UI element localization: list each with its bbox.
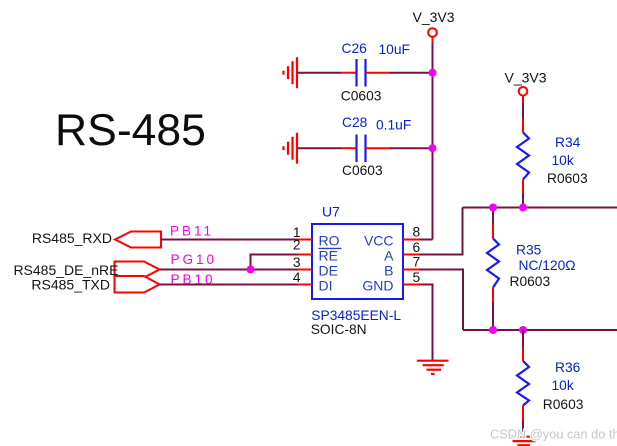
- wire pin 6 to A line: [419, 208, 463, 255]
- svg-text:PG10: PG10: [171, 252, 218, 267]
- wire junction up to pin 2: [251, 255, 299, 270]
- wire R34 to A line: [522, 194, 524, 208]
- wire port DE_nRE to pin 3: [160, 269, 299, 271]
- svg-text:R0603: R0603: [510, 274, 551, 289]
- svg-text:10k: 10k: [552, 153, 574, 168]
- svg-text:NC/120Ω: NC/120Ω: [519, 258, 576, 273]
- svg-text:0.1uF: 0.1uF: [376, 118, 411, 133]
- pin 4 stub: [297, 284, 312, 286]
- capacitor C28: [341, 115, 411, 178]
- svg-text:7: 7: [413, 255, 421, 270]
- wire ground to C28: [298, 147, 341, 149]
- svg-text:SOIC-8N: SOIC-8N: [311, 322, 367, 337]
- pin 7 stub: [403, 269, 419, 271]
- svg-text:PB11: PB11: [170, 224, 214, 239]
- node junction RE/DE tie: [247, 266, 255, 274]
- node junction B/R35: [489, 326, 497, 334]
- capacitor C26: [341, 41, 410, 104]
- svg-text:C0603: C0603: [342, 163, 383, 178]
- node junction C26/rail: [429, 69, 437, 77]
- svg-text:DI: DI: [319, 278, 333, 294]
- node junction A/R35: [489, 204, 497, 212]
- svg-text:10uF: 10uF: [379, 42, 410, 57]
- svg-text:RO: RO: [319, 233, 340, 249]
- pin 6 stub: [403, 254, 419, 256]
- wire C28 to rail: [390, 147, 433, 149]
- ground (earth) for C26: [284, 57, 298, 88]
- wire V_3V3 vertical rail: [432, 44, 434, 240]
- pin 8 stub: [403, 239, 419, 241]
- svg-text:6: 6: [413, 240, 421, 255]
- wire ground to C26: [298, 72, 341, 74]
- svg-text:VCC: VCC: [364, 233, 394, 249]
- svg-text:4: 4: [293, 270, 301, 285]
- wire B line: [463, 329, 617, 331]
- svg-text:R0603: R0603: [543, 397, 584, 412]
- svg-text:RS485_RXD: RS485_RXD: [32, 230, 112, 246]
- ground (earth) pin 5: [417, 361, 449, 374]
- resistor R34 10k: [517, 119, 588, 195]
- resistor R36 10k: [517, 330, 584, 435]
- port RS485_TXD: [31, 276, 159, 293]
- wire pin 7 to B line: [419, 270, 463, 331]
- node junction A/R34: [519, 204, 527, 212]
- svg-text:V_3V3: V_3V3: [505, 70, 547, 86]
- node junction C28/rail: [429, 144, 437, 152]
- svg-text:8: 8: [413, 225, 421, 240]
- svg-text:DE: DE: [319, 263, 338, 279]
- svg-text:GND: GND: [362, 278, 393, 294]
- wire pin 8 to rail: [419, 239, 433, 241]
- pin 3 stub: [297, 269, 312, 271]
- svg-text:10k: 10k: [552, 378, 574, 393]
- power V_3V3 top: [413, 9, 455, 44]
- svg-text:B: B: [384, 263, 393, 279]
- port RS485_RXD: [32, 230, 161, 248]
- svg-text:C28: C28: [342, 115, 368, 130]
- IC U7 SP3485EEN-L: [311, 204, 403, 338]
- svg-text:A: A: [384, 248, 394, 264]
- resistor R35 NC/120R: [487, 208, 576, 331]
- svg-text:SP3485EEN-L: SP3485EEN-L: [311, 308, 401, 323]
- svg-text:R35: R35: [516, 243, 542, 258]
- wire V_3V3 to R34: [522, 103, 524, 119]
- svg-text:V_3V3: V_3V3: [413, 9, 455, 25]
- svg-text:CSDN @you can do this: CSDN @you can do this: [490, 427, 617, 442]
- svg-text:RS485_TXD: RS485_TXD: [31, 276, 110, 292]
- svg-text:C26: C26: [342, 41, 368, 56]
- ground (earth) for C28: [284, 133, 298, 164]
- svg-text:RS-485: RS-485: [55, 106, 206, 155]
- port RS485_DE_nRE: [13, 262, 159, 279]
- svg-text:U7: U7: [322, 204, 340, 220]
- svg-text:3: 3: [293, 255, 301, 270]
- wire port RXD to pin 1: [161, 239, 298, 241]
- power V_3V3 right: [505, 70, 547, 104]
- svg-text:R36: R36: [555, 360, 581, 375]
- wire pin 5 to ground: [419, 285, 433, 361]
- svg-text:C0603: C0603: [341, 89, 382, 104]
- svg-text:R34: R34: [555, 135, 581, 150]
- pin 5 stub: [403, 284, 419, 286]
- pin 2 stub: [297, 254, 312, 256]
- pin 1 stub: [297, 239, 312, 241]
- svg-text:PB10: PB10: [171, 272, 216, 287]
- ground (earth) R36: [508, 437, 542, 446]
- svg-text:R0603: R0603: [547, 171, 588, 186]
- node junction B/R36: [519, 326, 527, 334]
- wire A line: [463, 207, 617, 209]
- svg-text:5: 5: [413, 270, 421, 285]
- svg-text:RE: RE: [319, 248, 338, 264]
- wire C26 to rail: [390, 72, 433, 74]
- wire port TXD to pin 4: [160, 284, 299, 286]
